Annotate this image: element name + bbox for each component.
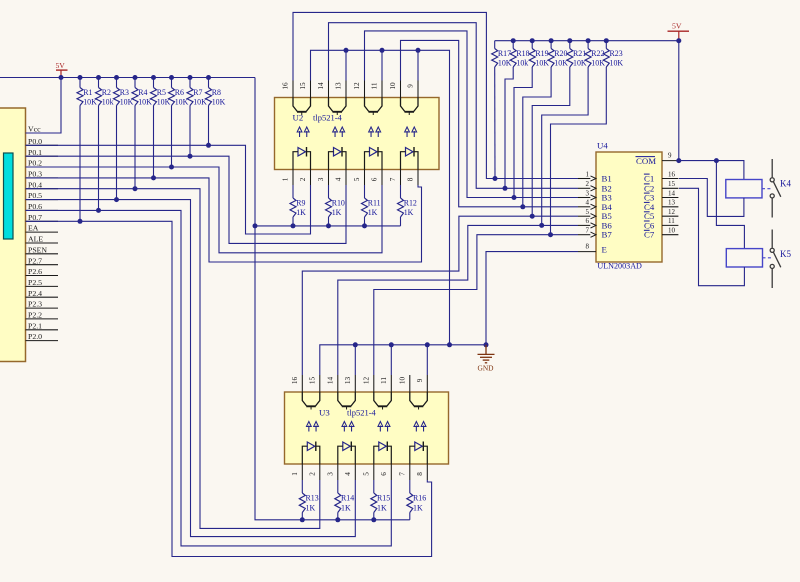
U4 pin 9 stub [662, 160, 679, 162]
U2 pin 7 stub [400, 170, 402, 186]
resistor R2 bottom lead [98, 106, 100, 211]
resistor R10 top lead [328, 185, 330, 198]
svg-text:2: 2 [299, 177, 307, 181]
resistor R17 lead to B1 [494, 67, 496, 179]
svg-text:1K: 1K [341, 504, 351, 513]
svg-text:R6: R6 [175, 88, 184, 97]
svg-text:4: 4 [335, 177, 343, 181]
svg-text:P2.4: P2.4 [28, 289, 42, 298]
U4 pin 8 stub [578, 251, 596, 253]
junction R13 bus [300, 517, 305, 522]
U2 pin 3 stub [328, 170, 330, 186]
U4 pin 11 stub [662, 224, 678, 226]
wire U3 emitter riser [354, 345, 356, 375]
MCU pin stub P2.5 [26, 285, 59, 287]
svg-text:5: 5 [353, 177, 361, 181]
junction R19 rail [530, 38, 535, 43]
wire U2 pin 10 to U4 B4 [401, 40, 579, 206]
junction GND symbol [484, 342, 489, 347]
resistor R15 top lead [373, 480, 375, 493]
resistor R14 bottom lead [337, 513, 339, 520]
svg-text:12: 12 [353, 82, 361, 90]
resistor R23 [603, 49, 609, 68]
resistor R12 bottom lead [400, 217, 402, 226]
svg-text:3: 3 [317, 177, 325, 181]
resistor R17 [492, 49, 498, 68]
U3 pin 6 stub [390, 464, 392, 480]
svg-text:11: 11 [380, 377, 388, 384]
U4 pin 16 stub [662, 178, 678, 180]
resistor R10 [326, 198, 332, 217]
MCU pin stub P0.2 [26, 166, 59, 168]
svg-text:P0.3: P0.3 [28, 170, 42, 179]
U2 pin 5 stub [364, 170, 366, 186]
resistor R2 [96, 88, 102, 106]
resistor R6 top lead [171, 78, 173, 88]
junction R4 P0 row [133, 186, 138, 191]
U3 optocoupler channel 4 [410, 392, 428, 464]
junction emitter GND bus [389, 342, 394, 347]
svg-text:4: 4 [586, 199, 590, 207]
wire COM to K5 coil [716, 161, 744, 249]
K4 linkage dashes [762, 188, 771, 190]
junction R8 P0 row [206, 143, 211, 148]
resistor R4 bottom lead [134, 106, 136, 189]
svg-text:R23: R23 [610, 49, 623, 58]
U2 pin 13 stub [345, 81, 347, 98]
junction R6 P0 row [169, 165, 174, 170]
svg-text:1K: 1K [368, 208, 378, 217]
resistor R16 [407, 493, 413, 513]
U4 input arrow B5 [591, 214, 597, 219]
svg-text:tlp521-4: tlp521-4 [313, 113, 343, 123]
junction R7 rail [188, 75, 193, 80]
MCU pin stub P0.6 [26, 209, 59, 211]
wire U2 pin 16 to U4 B1 [293, 12, 578, 178]
wire P0.2 to U2 pin 6 [26, 167, 383, 253]
svg-text:10k: 10k [102, 98, 114, 107]
svg-text:U4: U4 [597, 141, 608, 151]
optocoupler U3 box [285, 392, 449, 464]
svg-text:10K: 10K [610, 59, 624, 68]
wire U3 pin 16 to U4 B5 [302, 216, 578, 375]
svg-text:R1: R1 [83, 88, 92, 97]
U2 pin 11 stub [381, 81, 383, 98]
junction R1 P0 row [78, 219, 83, 224]
relay K5 coil [726, 249, 762, 267]
resistor R5 bottom lead [153, 106, 155, 178]
resistor R11 bottom lead [364, 217, 366, 226]
svg-text:6: 6 [380, 472, 388, 476]
U2 pin 15 stub [310, 81, 312, 98]
U2 pin 12 stub [364, 81, 366, 98]
C6 overline [644, 220, 650, 222]
junction emitter wire [344, 48, 349, 53]
U2 pin 14 stub [328, 81, 330, 98]
U4 pin 10 stub [662, 234, 678, 236]
svg-text:6: 6 [371, 177, 379, 181]
wire U3 pin 12 to U4 B7 [374, 235, 578, 375]
junction R17 B1 [493, 176, 498, 181]
resistor R12 [398, 198, 404, 217]
resistor R18 [510, 49, 516, 68]
resistor R11 [362, 198, 368, 217]
resistor R6 bottom lead [171, 106, 173, 168]
U4 pin 13 stub [662, 206, 678, 208]
svg-text:16: 16 [668, 170, 676, 178]
U3 pin 10 stub [409, 375, 411, 392]
U2 pin 16 stub [292, 81, 294, 98]
svg-text:10: 10 [389, 82, 397, 90]
power 5V left [56, 61, 68, 78]
resistor R8 [206, 88, 212, 106]
C4 overline [644, 201, 650, 203]
svg-text:R13: R13 [306, 494, 319, 503]
relay K4 coil [726, 180, 762, 198]
wire U2 pin 12 to U4 B3 [365, 31, 579, 198]
svg-text:2: 2 [309, 472, 317, 476]
resistor R11 top lead [364, 185, 366, 198]
ground GND [478, 345, 495, 373]
svg-text:P2.0: P2.0 [28, 332, 42, 341]
svg-text:3: 3 [327, 472, 335, 476]
U3 pin 7 stub [409, 464, 411, 480]
U3 pin 1 stub [301, 464, 303, 480]
svg-text:1K: 1K [332, 208, 342, 217]
svg-text:R2: R2 [102, 88, 111, 97]
U3 pin 11 stub [390, 375, 392, 392]
svg-text:R8: R8 [212, 88, 221, 97]
wire P0.4 to U3 pin 2 [26, 189, 320, 529]
svg-text:1K: 1K [306, 504, 316, 513]
resistor R13 bottom lead [301, 513, 303, 520]
svg-text:5: 5 [363, 472, 371, 476]
svg-text:R21: R21 [573, 49, 586, 58]
svg-text:2: 2 [586, 180, 590, 188]
svg-text:8: 8 [586, 242, 590, 250]
svg-text:1K: 1K [413, 504, 423, 513]
wire U2 emitter riser [417, 50, 419, 80]
resistor R16 top lead [409, 480, 411, 493]
resistor R21 lead to B5 [532, 67, 570, 216]
resistor R1 top lead [79, 78, 81, 88]
svg-text:1K: 1K [377, 504, 387, 513]
U3 pin 3 stub [337, 464, 339, 480]
junction R21 rail [567, 38, 572, 43]
MCU pin stub P2.1 [26, 329, 59, 331]
junction R18 B2 [503, 186, 508, 191]
svg-text:R7: R7 [193, 88, 202, 97]
svg-text:R11: R11 [368, 199, 381, 208]
C2 overline [644, 183, 650, 185]
resistor R15 bottom lead [373, 513, 375, 520]
K5 linkage dashes [763, 257, 772, 259]
svg-text:10K: 10K [212, 98, 226, 107]
resistor R21 top lead [569, 41, 571, 49]
junction R4 rail [133, 75, 138, 80]
MCU pin stub P2.2 [26, 318, 59, 320]
U3 optocoupler channel 1 [302, 392, 320, 464]
svg-text:U3: U3 [319, 408, 330, 418]
U4 pin 14 stub [662, 197, 678, 199]
svg-text:K4: K4 [780, 179, 791, 189]
svg-text:6: 6 [586, 217, 590, 225]
junction emitter GND bus [425, 342, 430, 347]
svg-text:7: 7 [399, 472, 407, 476]
svg-text:Vcc: Vcc [28, 125, 41, 134]
MCU pin stub P0.5 [26, 199, 59, 201]
svg-text:P2.7: P2.7 [28, 256, 42, 265]
resistor R8 bottom lead [208, 106, 210, 146]
svg-text:14: 14 [668, 189, 676, 197]
resistor R9 [290, 198, 296, 217]
junction R7 P0 row [188, 154, 193, 159]
resistor R3 top lead [116, 78, 118, 88]
junction U2 emitter GND bus [447, 342, 452, 347]
U2 pin 9 stub [417, 81, 419, 98]
wire P0.1 to U2 pin 4 [26, 156, 347, 243]
svg-text:ALE: ALE [28, 235, 43, 244]
svg-text:1: 1 [291, 472, 299, 476]
svg-text:B1: B1 [602, 174, 612, 184]
svg-text:10k: 10k [516, 59, 528, 68]
junction R5 rail [151, 75, 156, 80]
optocoupler U2 box [275, 98, 440, 170]
junction R bus [326, 223, 331, 228]
resistor R7 bottom lead [189, 106, 191, 157]
svg-text:P2.5: P2.5 [28, 278, 42, 287]
U2 pin 6 stub [381, 170, 383, 186]
svg-text:R17: R17 [498, 49, 511, 58]
svg-text:R16: R16 [413, 494, 426, 503]
U4 input arrow B6 [591, 223, 597, 228]
resistor R21 [567, 49, 573, 68]
svg-text:8: 8 [416, 472, 424, 476]
svg-text:5V: 5V [56, 61, 66, 70]
resistor R1 bottom lead [79, 106, 81, 222]
junction R23 rail [604, 38, 609, 43]
U3 pin 13 stub [354, 375, 356, 392]
svg-text:9: 9 [668, 152, 672, 160]
resistor R2 top lead [98, 78, 100, 88]
resistor R18 lead to B2 [505, 67, 513, 188]
svg-text:C7: C7 [644, 230, 655, 240]
resistor R9 bottom lead [292, 217, 294, 226]
resistor R17 top lead [494, 41, 496, 49]
U4 input arrow B1 [591, 176, 597, 181]
U3 pin 9 stub [426, 375, 428, 392]
junction 5V rail right [676, 38, 681, 43]
U3 pin 4 stub [354, 464, 356, 480]
resistor R16 bottom lead [409, 513, 411, 520]
U3 pin 15 stub [319, 375, 321, 392]
wire K5 coil to C2 [679, 188, 744, 285]
wire P0.0 to U2 pin 2 [26, 145, 311, 234]
U4 input arrow B3 [591, 195, 597, 200]
wire 5V down to COM [678, 41, 680, 161]
C7 overline [644, 229, 650, 231]
junction R13 bus [335, 517, 340, 522]
svg-text:10: 10 [399, 377, 407, 385]
svg-text:14: 14 [327, 377, 335, 385]
wire R17-R23 5V rail [495, 40, 679, 42]
U2 optocoupler channel 1 [293, 98, 311, 170]
resistor R10 bottom lead [328, 217, 330, 226]
MCU pin stub P2.6 [26, 275, 59, 277]
svg-text:R9: R9 [296, 199, 305, 208]
U4 pin 2 stub [578, 187, 590, 189]
svg-text:4: 4 [344, 472, 352, 476]
svg-text:P0.1: P0.1 [28, 148, 42, 157]
junction R21 B5 [530, 214, 535, 219]
U3 optocoupler channel 3 [374, 392, 392, 464]
C5 overline [644, 211, 650, 213]
U4 pin 1 stub [578, 178, 590, 180]
svg-text:R22: R22 [591, 49, 604, 58]
U4 input arrow B4 [591, 204, 597, 209]
svg-text:13: 13 [335, 82, 343, 90]
svg-text:P0.6: P0.6 [28, 202, 42, 211]
svg-text:P2.6: P2.6 [28, 267, 42, 276]
junction R22 rail [586, 38, 591, 43]
svg-text:R5: R5 [157, 88, 166, 97]
resistor R19 [529, 49, 535, 68]
svg-text:P0.7: P0.7 [28, 213, 42, 222]
resistor R5 top lead [153, 78, 155, 88]
junction R22 B6 [539, 223, 544, 228]
svg-text:R4: R4 [138, 88, 147, 97]
MCU pin stub Vcc [26, 132, 59, 134]
svg-text:10: 10 [668, 227, 676, 235]
U4 pin 6 stub [578, 224, 590, 226]
MCU pin stub P2.3 [26, 307, 59, 309]
MCU pin stub P2.7 [26, 264, 59, 266]
resistor R13 [299, 493, 305, 513]
MCU crystal block [4, 153, 14, 239]
svg-text:R20: R20 [554, 49, 567, 58]
svg-text:GND: GND [478, 364, 495, 373]
svg-text:B7: B7 [602, 230, 613, 240]
MCU pin stub ALE [26, 242, 59, 244]
U4 input arrow B2 [591, 186, 597, 191]
svg-text:9: 9 [407, 84, 415, 88]
svg-text:EA: EA [28, 224, 39, 233]
U2 optocoupler channel 4 [401, 98, 419, 170]
wire U2 emitters to GND [311, 50, 450, 345]
MCU pin stub P0.0 [26, 144, 59, 146]
C3 overline [644, 192, 650, 194]
wire U2 emitter riser [345, 50, 347, 80]
junction rail/R9 bus [253, 223, 258, 228]
driver U4 box [596, 152, 662, 262]
resistor R14 top lead [337, 480, 339, 493]
resistor R15 [371, 493, 377, 513]
junction R19 B3 [512, 195, 517, 200]
svg-text:8: 8 [407, 177, 415, 181]
junction R6 rail [169, 75, 174, 80]
svg-text:11: 11 [668, 217, 675, 225]
junction R5 P0 row [151, 175, 156, 180]
COM overline [636, 156, 656, 158]
svg-text:R14: R14 [341, 494, 354, 503]
MCU pin stub PSEN [26, 253, 59, 255]
power 5V right [668, 21, 690, 40]
resistor R5 [151, 88, 157, 106]
resistor R7 top lead [189, 78, 191, 88]
svg-text:16: 16 [291, 377, 299, 385]
junction R8 rail [206, 75, 211, 80]
resistor R20 top lead [550, 41, 552, 49]
resistor R20 lead to B4 [523, 67, 551, 207]
junction emitter wire [380, 48, 385, 53]
svg-text:R15: R15 [377, 494, 390, 503]
svg-text:E: E [602, 245, 607, 255]
junction R3 P0 row [114, 197, 119, 202]
wire P0.5 to U3 pin 4 [26, 200, 356, 537]
wire 5V top rail [0, 77, 255, 79]
U2 pin 4 stub [345, 170, 347, 186]
svg-text:K5: K5 [780, 249, 791, 259]
junction R2 rail [96, 75, 101, 80]
resistor R6 [169, 88, 175, 106]
wire K4 coil to C1 [679, 179, 744, 217]
svg-text:10K: 10K [535, 59, 549, 68]
svg-text:7: 7 [389, 177, 397, 181]
U3 pin 5 stub [373, 464, 375, 480]
resistor R23 top lead [605, 41, 607, 49]
MCU pin stub P2.0 [26, 340, 59, 342]
junction emitter wire [416, 48, 421, 53]
svg-text:P2.1: P2.1 [28, 321, 42, 330]
svg-text:13: 13 [344, 377, 352, 385]
svg-text:14: 14 [317, 82, 325, 90]
U4 pin 15 stub [662, 187, 678, 189]
junction R bus [291, 223, 296, 228]
svg-text:C1: C1 [644, 174, 654, 184]
resistor R19 lead to B3 [514, 67, 532, 198]
wire U3 pin 14 to U4 B6 [338, 225, 578, 375]
resistor R20 [548, 49, 554, 68]
wire U2 pin 14 to U4 B2 [329, 23, 579, 189]
svg-text:R19: R19 [535, 49, 548, 58]
MCU pin stub EA [26, 231, 59, 233]
junction R bus [362, 223, 367, 228]
svg-text:P0.0: P0.0 [28, 137, 42, 146]
svg-text:R12: R12 [404, 199, 417, 208]
svg-text:1K: 1K [296, 208, 306, 217]
svg-text:ULN2003AD: ULN2003AD [597, 261, 642, 271]
resistor R13 top lead [301, 480, 303, 493]
svg-text:1K: 1K [404, 208, 414, 217]
junction R20 rail [549, 38, 554, 43]
wire U2 emitter riser [381, 50, 383, 80]
svg-text:3: 3 [586, 189, 590, 197]
resistor R3 bottom lead [116, 106, 118, 200]
resistor R22 top lead [587, 41, 589, 49]
svg-text:R10: R10 [332, 199, 345, 208]
MCU U1 box [0, 108, 26, 362]
wire E to GND [486, 252, 578, 345]
wire U3 emitter riser [426, 345, 428, 375]
svg-text:15: 15 [299, 82, 307, 90]
U4 pin 3 stub [578, 197, 590, 199]
U2 pin 8 stub [417, 170, 419, 186]
U3 pin 14 stub [337, 375, 339, 392]
svg-text:11: 11 [371, 82, 379, 89]
MCU pin stub P0.1 [26, 155, 59, 157]
U4 pin 4 stub [578, 206, 590, 208]
MCU pin stub P0.7 [26, 220, 59, 222]
